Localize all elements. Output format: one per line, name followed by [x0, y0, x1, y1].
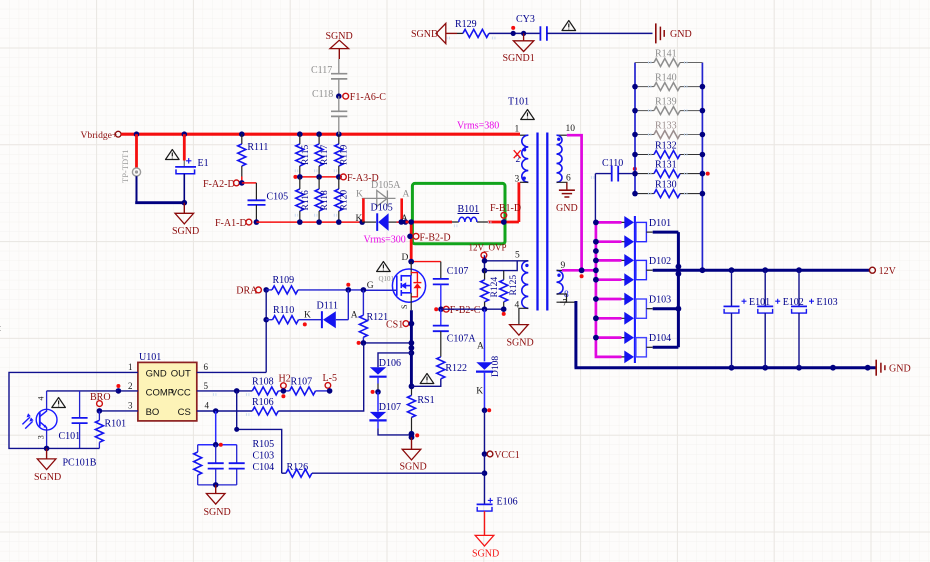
wire opto collector rail — [47, 390, 119, 392]
svg-text:C107: C107 — [447, 266, 469, 277]
wire pin1 (GND) loop to left — [9, 372, 138, 448]
resistor R109 — [266, 275, 298, 294]
bus junction dots — [593, 220, 599, 341]
resistor R101 — [95, 411, 126, 449]
resistor R117 — [315, 134, 330, 177]
svg-text:Vrms=380: Vrms=380 — [457, 121, 499, 132]
svg-text:R105: R105 — [253, 439, 275, 450]
rectifier cathode bar — [634, 216, 636, 363]
svg-text:D111: D111 — [317, 301, 338, 312]
capacitor CY3 — [516, 14, 547, 41]
svg-text:F-A1-D: F-A1-D — [215, 218, 247, 229]
svg-text:C110: C110 — [602, 158, 623, 169]
capacitor C118 (grey) — [312, 89, 347, 134]
power port SGND (under RS1) — [400, 437, 427, 472]
svg-text:CY3: CY3 — [516, 14, 535, 25]
diode D104 (dual) — [624, 331, 671, 363]
svg-text:D: D — [402, 253, 409, 263]
svg-text:F-B2-C: F-B2-C — [450, 305, 481, 316]
port OF-B2-C — [434, 305, 480, 316]
svg-text:3: 3 — [515, 175, 520, 185]
resistor R131 — [635, 160, 702, 178]
resistor R119 — [335, 134, 350, 177]
svg-text:GND: GND — [556, 203, 578, 214]
port DRA — [236, 286, 269, 297]
wire D105A parallel risers (red) — [362, 198, 365, 222]
diode D108 — [476, 342, 501, 411]
wire source column (thick navy) — [410, 310, 413, 386]
svg-text:R118: R118 — [320, 190, 330, 210]
capacitor E103 — [791, 270, 838, 368]
wire cathode bus vertical (thick navy) — [677, 232, 680, 347]
svg-text:D101: D101 — [649, 218, 671, 229]
anode stubs (magenta) — [595, 222, 622, 357]
svg-text:D107: D107 — [379, 402, 401, 413]
svg-text:BO: BO — [146, 407, 160, 418]
wire F-A2-D to C105 — [242, 182, 257, 184]
svg-text:1: 1 — [515, 125, 520, 135]
resistor RS1 — [408, 386, 435, 434]
diode D105A (grey, outline) — [356, 180, 410, 206]
wire OUT riser — [265, 290, 267, 373]
svg-text:SGND: SGND — [172, 226, 199, 237]
svg-text:C107A: C107A — [447, 334, 477, 345]
wire pin 7/8 to secondary GND rail (thick navy) — [574, 301, 577, 368]
port F-A3-D — [341, 173, 379, 184]
wire R109 to gate node — [298, 289, 363, 291]
svg-text:R124: R124 — [490, 277, 500, 298]
wire D102 out (thick navy) — [653, 269, 679, 272]
diode D111 — [303, 290, 358, 328]
resistor R121 — [359, 290, 388, 343]
power port SGND (under E1) — [172, 203, 199, 237]
svg-text:Vbridge+: Vbridge+ — [81, 130, 118, 141]
port H2 — [279, 374, 291, 399]
port CS1 — [386, 320, 414, 331]
wire bottom rail (red) — [256, 221, 362, 223]
wire R126 to VCC1 column — [312, 472, 485, 474]
port 12V_OVP — [469, 242, 507, 260]
wire drain riser (thick red) — [410, 222, 413, 262]
inductor B101 — [452, 204, 488, 222]
svg-text:Vrms=300: Vrms=300 — [364, 235, 406, 246]
resistor R126 — [282, 462, 312, 477]
svg-text:R115: R115 — [301, 145, 311, 165]
diode D107 — [369, 392, 411, 435]
rectifier anode bus (magenta) — [595, 222, 598, 355]
svg-text:D108: D108 — [491, 356, 501, 377]
power port SGND (top left of EMI chain) — [411, 23, 446, 43]
svg-text:12V: 12V — [879, 266, 897, 277]
power port SGND (under E106, bright red) — [472, 535, 499, 559]
port F-B1-D — [490, 203, 521, 225]
svg-text:C103: C103 — [253, 451, 275, 462]
port 12V — [869, 266, 896, 277]
test point TP-TDT1 — [120, 134, 141, 183]
port F-A2-D — [203, 179, 245, 190]
power port SGND1 — [503, 33, 535, 64]
wire 12V rail (thick navy) — [678, 269, 869, 272]
svg-text:PC101B: PC101B — [63, 458, 97, 469]
capacitor C107A — [433, 309, 477, 357]
svg-text:Q101: Q101 — [379, 275, 395, 283]
svg-text:12V_OVP: 12V_OVP — [469, 242, 507, 252]
svg-text:5: 5 — [515, 251, 520, 261]
resistor R107 — [290, 377, 330, 395]
resistor R130 — [635, 180, 702, 198]
wire VCC1 to E106 — [484, 454, 486, 504]
power port SGND (under filter group) — [204, 485, 231, 518]
power port SGND (top of C117 chain, pointing up) — [326, 31, 353, 59]
pin ghost marks — [214, 37, 687, 416]
svg-text:A: A — [351, 311, 358, 321]
svg-text:B101: B101 — [458, 204, 480, 215]
wire pin 10 to bus (magenta) — [567, 135, 582, 270]
resistor R141 — [635, 49, 702, 67]
T101 aux winding pins 5,4 — [515, 251, 529, 325]
svg-text:CS: CS — [178, 407, 191, 418]
svg-text:C118: C118 — [312, 89, 333, 100]
svg-text:R121: R121 — [367, 312, 389, 323]
diode D102 (dual) — [624, 254, 671, 286]
svg-text:SGND: SGND — [204, 507, 231, 518]
svg-text:VCC: VCC — [171, 387, 191, 398]
power symbol GND (right, earth) — [876, 360, 910, 376]
junction (emitter/SGND) — [44, 446, 50, 452]
svg-text:10: 10 — [566, 124, 576, 134]
warning triangle (E1) — [166, 150, 180, 160]
wire drain node to C107 (thin red) — [411, 261, 441, 263]
svg-text:G: G — [367, 281, 374, 291]
capacitor C117 (grey) — [311, 59, 347, 96]
svg-text:R110: R110 — [273, 305, 294, 316]
svg-text:U101: U101 — [139, 352, 161, 363]
wire CS branch down (blue) — [215, 411, 217, 445]
svg-text:GND: GND — [146, 368, 167, 379]
diode D105 — [356, 203, 409, 231]
svg-text:R109: R109 — [273, 275, 295, 286]
svg-text:TP-TDT1: TP-TDT1 — [120, 149, 130, 183]
svg-text:F-B1-D: F-B1-D — [490, 203, 521, 214]
svg-text:CS1: CS1 — [386, 320, 403, 331]
wire B101 to pin3 riser (thick red) — [488, 221, 519, 224]
svg-text:D106: D106 — [379, 358, 401, 369]
resistor R106 — [252, 343, 364, 415]
wire B101 row (thick red) — [406, 221, 453, 224]
resistor R120 — [335, 177, 350, 222]
T101 core — [538, 133, 548, 311]
svg-text:5: 5 — [204, 381, 209, 391]
wire mid rail (red) — [295, 176, 342, 178]
resistor R139 — [635, 97, 702, 115]
capacitor C110 — [595, 158, 635, 182]
T101 primary winding pins 1-3 — [514, 125, 529, 185]
resistor R122 — [412, 357, 468, 387]
capacitor C101 — [59, 391, 88, 449]
svg-text:A: A — [403, 190, 410, 200]
wire D106 branch — [378, 353, 411, 367]
power symbol GND (earth under pin 6) — [556, 183, 578, 215]
svg-text:R119: R119 — [339, 145, 349, 165]
svg-text:R125: R125 — [509, 275, 519, 296]
svg-text:K: K — [476, 387, 483, 397]
capacitor E1 (electrolytic) — [175, 134, 208, 203]
resistor R115 — [296, 134, 311, 177]
port F-B2-D — [407, 232, 450, 243]
svg-text:SGND: SGND — [507, 338, 534, 349]
svg-text:A: A — [477, 342, 484, 352]
port VCC1 — [482, 450, 520, 461]
junction dots on GND rail — [729, 365, 735, 371]
power port SGND (under PC101B) — [34, 448, 61, 483]
wire R121 bottom row — [363, 342, 411, 344]
svg-text:R101: R101 — [105, 419, 127, 430]
svg-text:GND: GND — [670, 29, 692, 40]
svg-text:K: K — [304, 311, 311, 321]
svg-text:E106: E106 — [497, 497, 518, 508]
resistor R132 — [635, 141, 702, 159]
filter group top rail — [198, 444, 237, 446]
wire SGND to R129 — [446, 32, 457, 34]
resistor R140 — [635, 73, 702, 91]
resistor R110 — [266, 305, 321, 324]
svg-text:R117: R117 — [320, 145, 330, 165]
power port SGND (under pin 4) — [507, 325, 534, 349]
svg-text:E103: E103 — [817, 297, 838, 308]
diode D106 — [369, 358, 401, 392]
svg-text:R116: R116 — [301, 190, 311, 210]
junction (D105 anode) — [399, 219, 405, 225]
svg-text:D103: D103 — [649, 295, 671, 306]
wire pin6 (OUT) — [197, 371, 266, 373]
capacitor C104 — [229, 445, 274, 485]
warning triangle (RS1) — [420, 374, 434, 384]
wire Vbridge+ bus (thick red) — [121, 133, 520, 136]
svg-text:K: K — [356, 214, 363, 224]
wire pin3 stub — [99, 410, 137, 412]
wire CY3 to GND — [547, 32, 653, 34]
svg-text:SGND: SGND — [400, 462, 427, 473]
power symbol GND (earth, top) — [656, 23, 692, 43]
resistor R111 — [238, 134, 269, 183]
optocoupler PC101B — [22, 391, 96, 469]
wire pin 9 (magenta) — [562, 269, 596, 272]
IC U101 — [128, 352, 210, 421]
svg-text:GND: GND — [889, 363, 911, 374]
wire pin 5 aux — [485, 260, 529, 262]
port L-5 — [323, 373, 337, 394]
svg-text:SGND: SGND — [411, 29, 438, 40]
warning triangle (Q101) — [377, 262, 391, 272]
svg-text:F-B2-D: F-B2-D — [420, 232, 451, 243]
green highlight box — [412, 183, 505, 243]
svg-text:R122: R122 — [445, 363, 467, 374]
svg-text:C104: C104 — [253, 462, 275, 473]
wire C110 left to rectifier bus — [594, 174, 596, 223]
wire VCC branch down — [237, 391, 282, 473]
T101 secondary winding pins 10,6 — [557, 124, 576, 189]
svg-text:VCC1: VCC1 — [494, 450, 520, 461]
capacitor C105 — [248, 183, 289, 222]
resistor R125 — [500, 271, 520, 309]
wire R129 to CY3 — [489, 32, 541, 34]
wire pin4 (CS) — [197, 410, 253, 412]
T101 secondary winding pins 9,8,7 — [557, 261, 576, 309]
svg-text:D104: D104 — [649, 333, 671, 344]
resistor R105 — [194, 439, 274, 485]
svg-text:RS1: RS1 — [417, 395, 434, 406]
filter group bottom rail — [198, 484, 237, 486]
junction — [182, 200, 188, 206]
svg-text:C101: C101 — [59, 431, 81, 442]
capacitor C103 — [208, 445, 274, 485]
resistor R124 — [481, 271, 501, 309]
svg-text:D105: D105 — [371, 203, 393, 214]
port F1-A6-C — [336, 92, 386, 103]
svg-text:R120: R120 — [339, 190, 349, 211]
wire R125 top jog — [485, 261, 518, 271]
svg-text:T101: T101 — [508, 97, 529, 108]
net Vbridge+ — [81, 130, 122, 141]
anode lead tips — [622, 222, 625, 357]
svg-text:6: 6 — [204, 362, 209, 372]
warning triangle (top) — [562, 21, 576, 31]
svg-text:2: 2 — [128, 381, 133, 391]
resistor R108 — [252, 377, 290, 395]
resistor ladder rails — [634, 63, 636, 194]
svg-text:F1-A6-C: F1-A6-C — [350, 92, 386, 103]
svg-text:SGND1: SGND1 — [503, 53, 535, 64]
port BRO — [90, 392, 111, 414]
svg-text:L-5: L-5 — [323, 373, 337, 384]
capacitor E106 — [477, 497, 518, 536]
ladder junction dots — [632, 84, 705, 197]
svg-text:E1: E1 — [198, 158, 209, 169]
svg-text:SGND: SGND — [34, 472, 61, 483]
junction dots on bus — [134, 131, 140, 137]
diode D101 (dual) — [624, 216, 671, 248]
wire D103 out (thick navy) — [653, 307, 679, 310]
junction dots on 12V rail — [676, 264, 682, 270]
capacitor E101 — [724, 270, 771, 368]
svg-text:D105A: D105A — [371, 180, 401, 191]
svg-text:DRA: DRA — [236, 286, 258, 297]
svg-text:R111: R111 — [247, 142, 268, 153]
svg-text:C117: C117 — [311, 65, 332, 76]
warning triangle (T101) — [521, 110, 535, 120]
svg-text:F-A2-D: F-A2-D — [203, 179, 235, 190]
svg-text:C105: C105 — [267, 192, 289, 203]
wire D101 out (thick navy) — [653, 231, 679, 234]
warning triangle (PC101B) — [52, 398, 66, 408]
svg-text:1: 1 — [128, 362, 133, 372]
svg-text:OUT: OUT — [171, 368, 191, 379]
capacitor E102 — [757, 270, 804, 368]
wire pin5 (VCC) — [197, 390, 253, 392]
svg-text:S: S — [400, 305, 409, 309]
wire R124/R125 bottom rail — [441, 308, 504, 310]
wire to VCC1 — [484, 410, 486, 454]
svg-text:4: 4 — [37, 397, 46, 401]
resistor R118 — [315, 177, 330, 222]
resistor R133 — [635, 121, 702, 139]
port F-A1-D — [215, 218, 259, 229]
wire pin2 stub — [118, 390, 137, 392]
svg-text:3: 3 — [128, 401, 133, 411]
mosfet Q101 — [363, 253, 425, 310]
capacitor C107 — [433, 262, 469, 310]
diode D103 (dual) — [624, 293, 671, 325]
svg-text:SGND: SGND — [472, 549, 499, 560]
resistor R129 — [455, 19, 489, 37]
junction — [511, 31, 516, 36]
wire TP to SGND (thick navy) — [136, 176, 138, 203]
resistor R116 — [296, 177, 311, 222]
wire VCC1 column (blue) — [484, 309, 486, 361]
svg-text:4: 4 — [205, 401, 210, 411]
svg-text:3: 3 — [37, 435, 46, 439]
wire D104 out (thick navy) — [653, 346, 679, 349]
svg-text:D102: D102 — [649, 256, 671, 267]
